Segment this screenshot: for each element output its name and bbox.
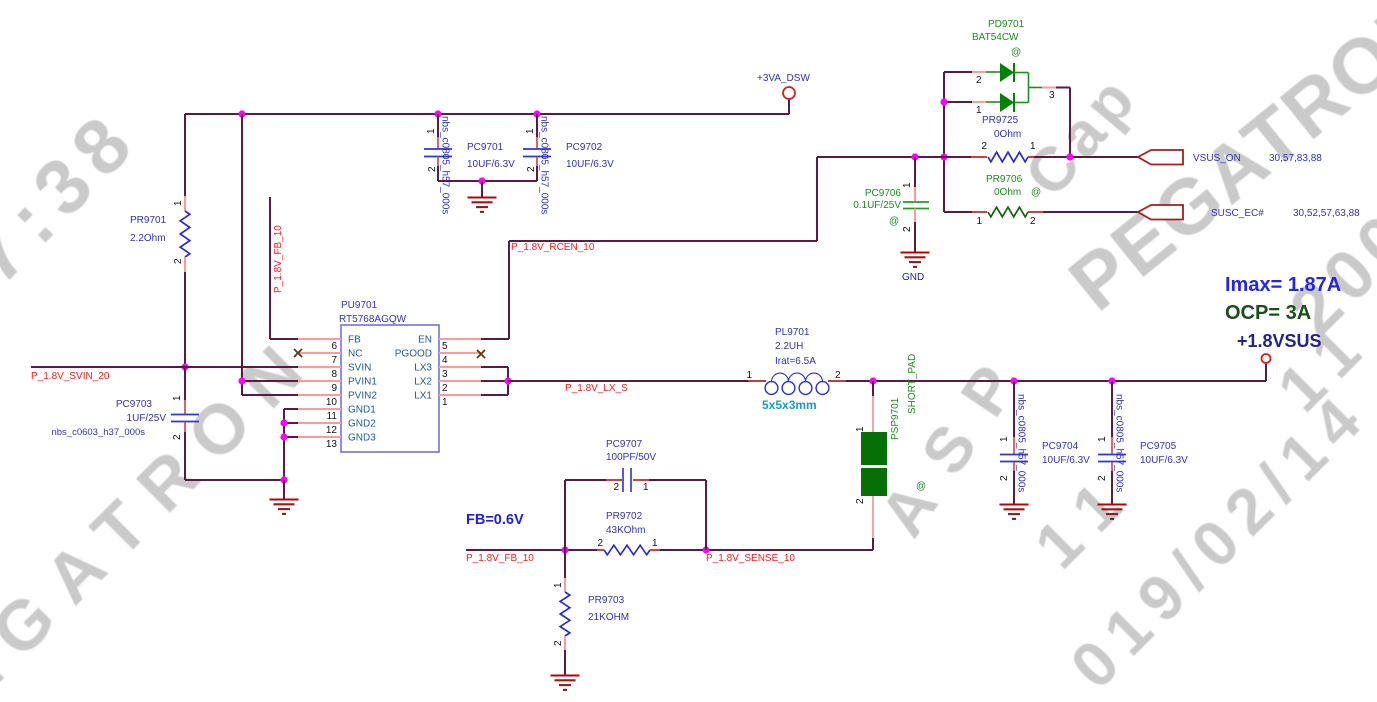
label Imax <box>1225 274 1341 296</box>
svg-text:2: 2 <box>597 538 603 549</box>
svg-text:P_1.8V_SVIN_20: P_1.8V_SVIN_20 <box>31 371 110 382</box>
wire PC9701 pin2 <box>437 157 439 182</box>
wire PR9703 bottom <box>564 636 566 675</box>
svg-text:1: 1 <box>999 436 1010 442</box>
svg-text:2: 2 <box>855 498 866 504</box>
node junction PC9705 <box>1108 377 1115 384</box>
pin 2 label PL9701 <box>835 370 841 381</box>
net label +3VA_DSW <box>757 73 810 84</box>
pin 2 label PD9701 <box>976 75 982 86</box>
net label P_1.8V_FB_10 <box>466 553 534 564</box>
svg-text:2: 2 <box>981 141 987 152</box>
svg-text:12: 12 <box>326 425 338 436</box>
net label P_1.8V_SENSE_10 <box>706 553 795 564</box>
svg-text:P_1.8V_LX_S: P_1.8V_LX_S <box>565 383 628 394</box>
svg-text:2: 2 <box>442 383 448 394</box>
capacitor PC9707 <box>623 468 631 492</box>
pin stubs PU9701 <box>298 339 481 437</box>
wire PC9701 pin1 <box>437 114 439 149</box>
wire P_1.8V_LX_S <box>508 380 766 382</box>
power terminal +1.8VSUS <box>1262 354 1271 363</box>
wire PC9707 loop <box>565 480 706 550</box>
svg-text:P_1.8V_FB_10: P_1.8V_FB_10 <box>466 553 534 564</box>
svg-text:GND: GND <box>902 272 924 283</box>
pin 1 label PD9701 <box>976 105 982 116</box>
svg-text:1: 1 <box>976 216 982 227</box>
wire PC9705 pin2 <box>1111 462 1113 504</box>
node junction BAT54-VSUS <box>1066 153 1073 160</box>
label PR9702 <box>606 511 645 536</box>
svg-text:2: 2 <box>172 434 183 440</box>
svg-text:P_1.8V_FB_10: P_1.8V_FB_10 <box>273 225 284 293</box>
wire PR9702 right <box>650 549 873 551</box>
svg-text:10UF/6.3V: 10UF/6.3V <box>1042 455 1090 466</box>
pin 1 label PC9703 <box>172 395 183 401</box>
net label P_1.8V_LX_S <box>565 383 628 394</box>
svg-text:11: 11 <box>327 411 338 422</box>
capacitor PC9703 <box>171 415 199 422</box>
svg-text:1: 1 <box>1030 141 1036 152</box>
short pad PSP9701 <box>861 432 887 496</box>
op-amp U1 body PU9701 <box>341 325 439 452</box>
label PC9703 <box>51 399 166 438</box>
svg-text:nbs_c0805_h57_000s: nbs_c0805_h57_000s <box>1016 394 1027 492</box>
pin 2 label PR9703 <box>553 640 564 646</box>
svg-text:SUSC_EC#: SUSC_EC# <box>1211 208 1264 219</box>
svg-text:10UF/6.3V: 10UF/6.3V <box>566 159 614 170</box>
svg-text:0.1UF/25V: 0.1UF/25V <box>853 200 901 211</box>
pin numbers right PU9701 <box>442 341 448 408</box>
wire PC9703 to ground rail <box>185 422 284 481</box>
svg-text:2: 2 <box>613 482 619 493</box>
svg-text:SHORT_PAD: SHORT_PAD <box>907 354 918 414</box>
svg-text:8: 8 <box>331 369 337 380</box>
pin names left PU9701 <box>348 335 377 444</box>
pin 2 label PR9725 <box>981 141 987 152</box>
pin 1 label PC9702 <box>525 128 536 134</box>
pin 1 label PR9702 <box>652 538 658 549</box>
pin 2 label PC9703 <box>172 434 183 440</box>
svg-text:OCP= 3A: OCP= 3A <box>1225 302 1311 324</box>
wire SUSC row <box>944 211 1138 212</box>
label PC9704 <box>1042 441 1090 466</box>
wire PC9702 pin2 <box>536 157 538 182</box>
label 5x5x3mm <box>762 398 817 412</box>
svg-text:PVIN2: PVIN2 <box>348 391 377 402</box>
node junction top-rail/left-vert <box>238 110 245 117</box>
wire cap ground rail <box>438 180 537 182</box>
svg-text:PD9701: PD9701 <box>988 19 1025 30</box>
svg-text:0Ohm: 0Ohm <box>994 129 1021 140</box>
pin 1 label PSP9701 <box>855 426 866 432</box>
capacitor PC9704 <box>1000 455 1028 462</box>
svg-text:1: 1 <box>652 538 658 549</box>
svg-text:2: 2 <box>553 640 564 646</box>
capacitor PC9701 <box>424 149 452 157</box>
svg-text:LX2: LX2 <box>414 377 432 388</box>
port SUSC_EC# <box>1138 205 1183 220</box>
ground symbol IC <box>270 480 299 514</box>
node junction GND3 <box>280 433 287 440</box>
ground symbol PC9705 <box>1098 505 1127 519</box>
port VSUS_ON <box>1138 150 1183 165</box>
no-connect X on NC pin 7 <box>294 349 302 357</box>
svg-text:2: 2 <box>526 166 537 172</box>
node junction ground rail <box>280 476 287 483</box>
svg-text:P_1.8V_SENSE_10: P_1.8V_SENSE_10 <box>706 553 795 564</box>
node junction PC9706 <box>911 153 918 160</box>
wire GND pins to ground <box>284 409 298 480</box>
svg-text:FB=0.6V: FB=0.6V <box>466 512 524 528</box>
svg-text:LX3: LX3 <box>414 363 432 374</box>
power terminal +3VA_DSW <box>783 87 795 99</box>
svg-text:GND3: GND3 <box>348 433 376 444</box>
svg-text:PR9725: PR9725 <box>982 115 1019 126</box>
svg-text:@: @ <box>1031 187 1041 198</box>
svg-text:nbs_c0805_h57_000s: nbs_c0805_h57_000s <box>1114 394 1125 492</box>
svg-text:5: 5 <box>442 341 448 352</box>
capacitor PC9702 <box>523 149 551 157</box>
ground symbol PR9703 <box>551 676 580 690</box>
net label VSUS_ON <box>1193 153 1322 164</box>
pin 1 label PR9701 <box>173 200 184 206</box>
svg-text:2: 2 <box>1030 216 1036 227</box>
wire VSUS_ON row <box>817 156 1138 158</box>
svg-text:1: 1 <box>1097 436 1108 442</box>
pin 2 label PR9701 <box>173 258 184 264</box>
node junction cap-gnd <box>478 177 485 184</box>
svg-text:1: 1 <box>855 426 866 432</box>
pin 1 label PR9725 <box>1030 141 1036 152</box>
wire PC9704 pin1 <box>1013 381 1015 454</box>
net label P_1.8V_RCEN_10 <box>511 242 595 253</box>
capacitor PC9706 <box>903 202 929 209</box>
pin 2 label PR9706 <box>1030 216 1036 227</box>
svg-text:1: 1 <box>525 128 536 134</box>
label at symbol PSP9701 <box>916 481 926 492</box>
wire BAT54 left vert <box>944 72 972 211</box>
pin 1 label PC9701 <box>426 128 437 134</box>
svg-text:7: 7 <box>331 355 337 366</box>
svg-text:GND2: GND2 <box>348 419 376 430</box>
net label P_1.8V_FB_10 vertical <box>273 225 284 293</box>
label PL9701 <box>775 327 816 367</box>
pin 2 label PC9705 <box>1097 475 1108 481</box>
label PC9704 pkg <box>1016 394 1027 492</box>
pin numbers left PU9701 <box>326 341 338 450</box>
svg-text:PVIN1: PVIN1 <box>348 377 377 388</box>
svg-text:@: @ <box>889 216 899 227</box>
svg-text:10: 10 <box>326 397 338 408</box>
pin 1 label PR9706 <box>976 216 982 227</box>
pin 1 label PC9706 <box>902 182 913 188</box>
svg-text:EN: EN <box>418 335 432 346</box>
label PR9703 <box>588 595 629 623</box>
svg-text:1: 1 <box>173 200 184 206</box>
svg-text:2: 2 <box>1097 475 1108 481</box>
pin 1 label PC9704 <box>999 436 1010 442</box>
node junction LX <box>504 377 511 384</box>
resistor PR9725 <box>988 152 1028 162</box>
svg-text:5x5x3mm: 5x5x3mm <box>762 398 817 412</box>
wire P_1.8V_RCEN_10 <box>481 157 817 339</box>
label GND <box>902 272 924 283</box>
label PC9701 <box>467 142 515 170</box>
pin 3 label PD9701 <box>1049 90 1055 101</box>
svg-text:30,52,57,63,88: 30,52,57,63,88 <box>1293 208 1360 219</box>
wire left branch 2 <box>242 114 298 395</box>
diode D2 bottom PD9701 <box>972 93 1029 112</box>
resistor PR9703 <box>560 592 570 636</box>
wire PR9701 to SVIN node <box>184 257 186 367</box>
svg-text:100PF/50V: 100PF/50V <box>606 452 656 463</box>
svg-text:@: @ <box>916 481 926 492</box>
svg-text:SVIN: SVIN <box>348 363 371 374</box>
pin 2 label PC9702 <box>526 166 537 172</box>
label PU9701 <box>339 300 407 325</box>
node junction FB <box>561 546 568 553</box>
net label +1.8VSUS <box>1237 331 1322 351</box>
wire PC9706 pin2 <box>914 209 916 253</box>
svg-text:PC9703: PC9703 <box>116 399 153 410</box>
node junction GND2 <box>280 419 287 426</box>
svg-text:4: 4 <box>442 355 448 366</box>
svg-text:3: 3 <box>1049 90 1055 101</box>
inductor PL9701 <box>765 373 829 394</box>
pin 1 label PC9705 <box>1097 436 1108 442</box>
wire P_1.8V_FB_10 row <box>466 549 604 551</box>
svg-text:10UF/6.3V: 10UF/6.3V <box>1140 455 1188 466</box>
svg-text:2: 2 <box>835 370 841 381</box>
label PC9706 <box>853 188 901 227</box>
svg-text:Irat=6.5A: Irat=6.5A <box>775 356 816 367</box>
wire PC9702 pin1 <box>536 114 538 149</box>
wire PR9703 top <box>564 550 566 592</box>
ground symbol caps <box>468 181 497 212</box>
svg-text:LX1: LX1 <box>414 391 432 402</box>
svg-text:nbs_c0805_h57_000s: nbs_c0805_h57_000s <box>440 116 451 214</box>
svg-text:2: 2 <box>427 166 438 172</box>
pin 2 label PC9707 <box>613 482 619 493</box>
wire PC9704 pin2 <box>1013 462 1015 504</box>
pin 2 label PC9704 <box>999 475 1010 481</box>
svg-text:PR9702: PR9702 <box>606 511 643 522</box>
svg-text:1: 1 <box>442 397 448 408</box>
ground symbol PC9706 <box>901 253 930 267</box>
svg-text:1: 1 <box>746 370 752 381</box>
svg-text:PR9706: PR9706 <box>986 174 1023 185</box>
svg-text:nbs_c0603_h37_000s: nbs_c0603_h37_000s <box>51 427 145 438</box>
svg-text:13: 13 <box>326 439 338 450</box>
svg-text:PC9707: PC9707 <box>606 439 643 450</box>
svg-text:PC9706: PC9706 <box>865 188 902 199</box>
svg-text:PC9701: PC9701 <box>467 142 504 153</box>
label PR9725 <box>982 115 1021 140</box>
pin 1 label PR9703 <box>553 582 564 588</box>
node junction PC9701 <box>434 110 441 117</box>
pin 2 label PC9706 <box>902 226 913 232</box>
svg-text:1: 1 <box>172 395 183 401</box>
svg-text:21KOHM: 21KOHM <box>588 612 629 623</box>
node junction short-pad <box>869 377 876 384</box>
pin 2 label PC9701 <box>427 166 438 172</box>
label PC9702 pkg <box>539 116 550 214</box>
svg-text:BAT54CW: BAT54CW <box>972 32 1019 43</box>
pin 1 label PL9701 <box>746 370 752 381</box>
ground symbol PC9704 <box>1000 505 1029 519</box>
wire PC9705 pin1 <box>1111 381 1113 454</box>
svg-text:+3VA_DSW: +3VA_DSW <box>757 73 810 84</box>
wire PC9706 pin1 <box>914 157 916 201</box>
diode D1 top PD9701 <box>972 63 1029 82</box>
wire short pad bottom <box>872 496 874 550</box>
svg-text:NC: NC <box>348 349 362 360</box>
no-connect X on PGOOD pin 4 <box>477 350 485 358</box>
svg-text:1: 1 <box>553 582 564 588</box>
svg-text:P_1.8V_RCEN_10: P_1.8V_RCEN_10 <box>511 242 595 253</box>
svg-text:PC9704: PC9704 <box>1042 441 1079 452</box>
svg-text:PR9703: PR9703 <box>588 595 625 606</box>
label FB=0.6V <box>466 512 524 528</box>
wire +3VA_DSW rail <box>185 99 789 114</box>
svg-text:1: 1 <box>902 182 913 188</box>
label PC9705 pkg <box>1114 394 1125 492</box>
svg-text:PSP9701: PSP9701 <box>890 397 901 440</box>
wire SVIN stub down <box>184 367 186 414</box>
node junction PVIN1 <box>238 377 245 384</box>
svg-text:GND1: GND1 <box>348 405 376 416</box>
svg-text:+1.8VSUS: +1.8VSUS <box>1237 331 1322 351</box>
wire LX pins join <box>481 367 508 395</box>
svg-text:2.2Ohm: 2.2Ohm <box>130 233 166 244</box>
wire LX to output <box>828 364 1266 381</box>
svg-text:2: 2 <box>999 475 1010 481</box>
label PSP9701 <box>890 354 918 440</box>
node junction SENSE <box>702 546 709 553</box>
node junction VSUS row <box>940 153 947 160</box>
wire BAT54 pin3 <box>1029 73 1071 158</box>
node junction PC9702 <box>533 110 540 117</box>
wire P_1.8V_SVIN_20 <box>31 366 298 368</box>
svg-text:6: 6 <box>331 341 337 352</box>
svg-text:PR9701: PR9701 <box>130 215 167 226</box>
svg-text:2: 2 <box>173 258 184 264</box>
svg-text:43KOhm: 43KOhm <box>606 525 645 536</box>
svg-text:FB: FB <box>348 335 361 346</box>
wire P_1.8V_FB_10 vertical <box>270 197 298 339</box>
wire short pad top <box>872 381 874 432</box>
svg-text:PC9705: PC9705 <box>1140 441 1177 452</box>
svg-text:RT5768AGQW: RT5768AGQW <box>339 314 407 325</box>
label PR9706 <box>986 174 1041 198</box>
pin 1 label PC9707 <box>643 482 649 493</box>
pin names right PU9701 <box>395 335 433 402</box>
label OCP <box>1225 302 1311 324</box>
svg-text:1: 1 <box>643 482 649 493</box>
node junction SVIN <box>181 363 188 370</box>
label PC9702 <box>566 142 614 170</box>
label PD9701 <box>972 19 1025 58</box>
label PR9701 value <box>130 215 167 244</box>
node junction PC9704 <box>1010 377 1017 384</box>
resistor PR9702 <box>604 545 650 555</box>
svg-text:PC9702: PC9702 <box>566 142 603 153</box>
svg-text:nbs_c0805_h57_000s: nbs_c0805_h57_000s <box>539 116 550 214</box>
svg-text:2: 2 <box>902 226 913 232</box>
resistor PR9701 <box>180 211 190 257</box>
svg-text:1: 1 <box>426 128 437 134</box>
wire left branch upper <box>184 114 186 211</box>
capacitor PC9705 <box>1098 455 1126 462</box>
svg-text:PU9701: PU9701 <box>341 300 378 311</box>
svg-text:VSUS_ON: VSUS_ON <box>1193 153 1241 164</box>
svg-text:Imax= 1.87A: Imax= 1.87A <box>1225 274 1341 296</box>
svg-text:9: 9 <box>331 383 337 394</box>
svg-text:2: 2 <box>976 75 982 86</box>
svg-text:2.2UH: 2.2UH <box>775 341 803 352</box>
net label SUSC_EC# <box>1211 208 1360 219</box>
net label P_1.8V_SVIN_20 <box>31 371 110 382</box>
svg-text:10UF/6.3V: 10UF/6.3V <box>467 159 515 170</box>
node junction diode2 <box>940 98 947 105</box>
label PC9705 <box>1140 441 1188 466</box>
pin 2 label PSP9701 <box>855 498 866 504</box>
label PC9707 <box>606 439 656 463</box>
pin 2 label PR9702 <box>597 538 603 549</box>
svg-text:0Ohm: 0Ohm <box>994 187 1021 198</box>
svg-text:PGOOD: PGOOD <box>395 349 432 360</box>
svg-text:30,57,83,88: 30,57,83,88 <box>1269 153 1322 164</box>
svg-text:@: @ <box>1011 47 1021 58</box>
svg-text:3: 3 <box>442 369 448 380</box>
resistor PR9706 <box>988 207 1028 217</box>
label PC9701 pkg <box>440 116 451 214</box>
svg-text:1UF/25V: 1UF/25V <box>127 413 167 424</box>
svg-text:PL9701: PL9701 <box>775 327 810 338</box>
